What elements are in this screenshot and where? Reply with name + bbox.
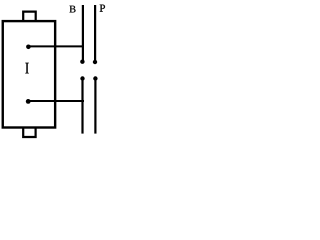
- wire B lower segment: [81, 79, 83, 134]
- label P: [100, 5, 105, 12]
- node dot B lower: [80, 76, 84, 80]
- component box I (induction coil): [3, 21, 55, 127]
- node dot P upper: [93, 60, 97, 64]
- node dot upper coil terminal: [26, 45, 31, 50]
- node dot lower coil terminal: [26, 99, 31, 104]
- node dot B upper: [80, 60, 84, 64]
- label I: [25, 63, 28, 74]
- label B: [70, 6, 76, 13]
- upper wire: [28, 45, 84, 47]
- lower wire: [28, 100, 84, 102]
- wire P lower segment: [94, 79, 96, 134]
- wire P upper segment: [94, 5, 96, 62]
- top terminal tab: [23, 12, 36, 21]
- bottom terminal tab: [23, 128, 35, 137]
- wire B upper segment: [82, 5, 84, 62]
- node dot P lower: [93, 76, 97, 80]
